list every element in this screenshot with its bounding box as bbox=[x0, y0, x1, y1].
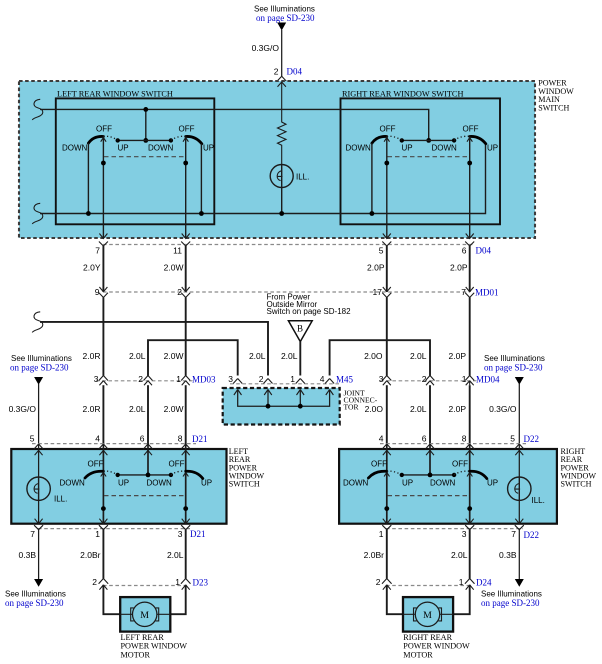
svg-text:MOTOR: MOTOR bbox=[403, 650, 433, 659]
entry chevrons into left switch box bbox=[34, 444, 44, 455]
svg-text:MD03: MD03 bbox=[192, 375, 216, 385]
lamp ILL. (right switch) bbox=[508, 444, 545, 524]
svg-text:7: 7 bbox=[461, 287, 466, 297]
svg-text:2.0P: 2.0P bbox=[367, 263, 385, 273]
pin 2 connector D04 top bbox=[274, 67, 303, 82]
svg-text:2.0P: 2.0P bbox=[449, 404, 467, 414]
svg-text:0.3G/O: 0.3G/O bbox=[252, 43, 280, 53]
svg-text:2.0L: 2.0L bbox=[129, 404, 146, 414]
switch sw7 (right rear switch, left half) bbox=[343, 444, 413, 524]
svg-text:2.0R: 2.0R bbox=[83, 351, 101, 361]
wire sw4 OFF pole down to pin 6 bbox=[469, 137, 471, 239]
pin 11 exit symbol bbox=[181, 234, 190, 247]
svg-text:D23: D23 bbox=[193, 578, 209, 588]
pin 7 exit / D22 bbox=[515, 519, 524, 530]
label left rear power window motor bbox=[121, 633, 188, 659]
wire 2.0P pin6 to pin7 MD01 bbox=[469, 246, 471, 292]
svg-text:2: 2 bbox=[92, 577, 97, 587]
wire lamp to bottom rail bbox=[281, 188, 283, 214]
connector row D22 (top of right switch) bbox=[379, 434, 539, 445]
wire 2.0Br to D24 pin 2 bbox=[386, 530, 388, 579]
svg-text:OFF: OFF bbox=[179, 125, 195, 134]
svg-text:DOWN: DOWN bbox=[147, 479, 173, 488]
wire 2.0W pin11 to pin2 bbox=[185, 246, 187, 292]
svg-text:D22: D22 bbox=[524, 530, 540, 540]
svg-text:2.0P: 2.0P bbox=[450, 263, 468, 273]
svg-text:LEFT REAR WINDOW SWITCH: LEFT REAR WINDOW SWITCH bbox=[57, 90, 173, 99]
resistor (illumination) bbox=[278, 82, 287, 165]
svg-text:OFF: OFF bbox=[380, 125, 396, 134]
wire 2.0Y pin7 to pin9 bbox=[102, 246, 104, 292]
connector row M45 (joint connector pins) bbox=[228, 374, 353, 385]
svg-text:2.0L: 2.0L bbox=[451, 550, 468, 560]
mechanical link sw1-sw2 bbox=[104, 156, 185, 158]
svg-text:MOTOR: MOTOR bbox=[121, 650, 151, 659]
svg-text:3: 3 bbox=[228, 374, 233, 384]
left rear power window switch box bbox=[11, 449, 226, 524]
MD04 pin 1 bbox=[465, 376, 474, 386]
mechanical link sw5-sw6 bbox=[104, 495, 186, 497]
svg-text:ILL.: ILL. bbox=[296, 173, 309, 182]
svg-text:UP: UP bbox=[487, 479, 498, 488]
joint connector internal bus bbox=[238, 390, 330, 406]
svg-text:17: 17 bbox=[373, 287, 383, 297]
tap wire pin 6 to contact wire bbox=[147, 444, 149, 475]
svg-text:UP: UP bbox=[402, 144, 413, 153]
svg-text:4: 4 bbox=[320, 374, 325, 384]
svg-text:on page SD-230: on page SD-230 bbox=[481, 598, 540, 608]
svg-text:0.3G/O: 0.3G/O bbox=[9, 404, 37, 414]
wire 2.0R to MD03 pin3 bbox=[102, 298, 104, 376]
svg-text:3: 3 bbox=[94, 374, 99, 384]
svg-text:2.0Br: 2.0Br bbox=[80, 550, 100, 560]
svg-text:ILL.: ILL. bbox=[532, 496, 545, 505]
switch sw1 (main, left rear, left half) bbox=[62, 125, 129, 153]
switch sw5 (left rear switch, left half) bbox=[60, 444, 130, 524]
tap wire pin 6 to contact wire (right box) bbox=[429, 444, 431, 475]
svg-text:RIGHT REAR WINDOW SWITCH: RIGHT REAR WINDOW SWITCH bbox=[342, 90, 463, 99]
pin 9 inline connector bbox=[99, 287, 107, 292]
svg-text:Switch on page SD-182: Switch on page SD-182 bbox=[267, 307, 352, 316]
svg-text:2.0L: 2.0L bbox=[167, 550, 184, 560]
switch sw4 (main, right rear, right half) bbox=[432, 125, 499, 153]
svg-text:on page SD-230: on page SD-230 bbox=[5, 598, 64, 608]
svg-text:SWITCH: SWITCH bbox=[229, 480, 260, 489]
node B: from power outside mirror switch bbox=[267, 293, 352, 342]
svg-text:2.0W: 2.0W bbox=[164, 351, 184, 361]
pin 7 exit symbol bbox=[99, 234, 108, 247]
contact wire sw7 UP to sw8 DOWN bbox=[402, 474, 454, 476]
svg-text:DOWN: DOWN bbox=[346, 144, 372, 153]
pin 2 inline connector bbox=[182, 287, 190, 292]
svg-text:RIGHT REAR: RIGHT REAR bbox=[403, 633, 452, 642]
pin 7 exit bbox=[34, 519, 43, 530]
wire sw1 lever end down to bottom rail bbox=[87, 143, 89, 214]
pin 6 exit symbol / D04 bbox=[465, 234, 474, 247]
svg-text:D04: D04 bbox=[476, 246, 492, 256]
svg-text:M: M bbox=[140, 610, 149, 621]
entry chevrons into right switch box bbox=[382, 444, 392, 455]
svg-text:5: 5 bbox=[30, 434, 35, 444]
svg-text:7: 7 bbox=[30, 529, 35, 539]
svg-text:2: 2 bbox=[376, 577, 381, 587]
svg-text:2.0W: 2.0W bbox=[164, 404, 184, 414]
pin 17 inline connector bbox=[383, 287, 391, 292]
label POWER WINDOW MAIN SWITCH bbox=[538, 79, 574, 113]
svg-text:DOWN: DOWN bbox=[430, 479, 456, 488]
svg-text:2.0O: 2.0O bbox=[364, 351, 383, 361]
svg-text:0.3B: 0.3B bbox=[499, 550, 517, 560]
arrow from illumination feed bbox=[277, 23, 286, 31]
MD03 pin 1 bbox=[181, 376, 190, 386]
wire 0.3B to illumination (left) bbox=[5, 530, 66, 608]
wire sw3 OFF pole down to pin 5 bbox=[386, 137, 388, 239]
svg-text:2: 2 bbox=[177, 287, 182, 297]
svg-text:2.0Br: 2.0Br bbox=[364, 550, 384, 560]
svg-text:2: 2 bbox=[422, 374, 427, 384]
MD03 pin 3 bbox=[99, 376, 108, 386]
wire joint pin 3 to MD03 pin 2 bbox=[148, 340, 238, 375]
svg-text:0.3B: 0.3B bbox=[19, 550, 37, 560]
connector row MD04 bbox=[379, 374, 500, 385]
svg-text:1: 1 bbox=[459, 577, 464, 587]
svg-text:D04: D04 bbox=[287, 67, 303, 77]
wire sw2 lever end down to bottom rail bbox=[200, 144, 202, 214]
svg-text:TOR: TOR bbox=[344, 403, 360, 412]
svg-text:3: 3 bbox=[178, 529, 183, 539]
wire 2.0W to MD03 pin1 bbox=[185, 298, 187, 376]
MD04 pin 3 bbox=[382, 376, 391, 386]
wire 2.0Br to D23 pin 2 bbox=[102, 530, 104, 579]
switch sw2 (main, left rear, right half) bbox=[148, 125, 214, 153]
connector row MD01 bbox=[103, 291, 470, 293]
svg-text:UP: UP bbox=[402, 479, 413, 488]
connector row D23 bbox=[92, 577, 208, 590]
power window main switch box bbox=[19, 81, 535, 238]
svg-text:1: 1 bbox=[290, 374, 295, 384]
right rear power window motor bbox=[387, 585, 470, 632]
svg-text:M: M bbox=[423, 610, 432, 621]
pin 2 entry arrow inside main switch bbox=[278, 82, 286, 87]
svg-text:DOWN: DOWN bbox=[343, 479, 369, 488]
svg-text:4: 4 bbox=[379, 434, 384, 444]
wire 2.0P pin5 to pin17 bbox=[386, 246, 388, 292]
svg-text:2.0L: 2.0L bbox=[249, 351, 266, 361]
svg-text:DOWN: DOWN bbox=[60, 479, 86, 488]
wire 2.0O to MD04 pin3 bbox=[386, 298, 388, 376]
inner box: right rear window switch bbox=[341, 98, 501, 224]
svg-text:1: 1 bbox=[175, 577, 180, 587]
lamp ILL. (main switch) bbox=[270, 165, 309, 188]
svg-text:UP: UP bbox=[487, 144, 498, 153]
svg-text:OFF: OFF bbox=[452, 460, 468, 469]
wire 2.0L to D23 pin 1 bbox=[185, 530, 187, 579]
connector row D21 bottom bbox=[30, 519, 205, 539]
svg-text:1: 1 bbox=[95, 529, 100, 539]
connector row D22 bottom bbox=[379, 519, 539, 540]
connector row MD03 bbox=[94, 374, 216, 385]
wire sw2 OFF pole down to pin 11 bbox=[185, 137, 187, 239]
pin 5 exit symbol bbox=[382, 234, 391, 247]
switch sw3 (main, right rear, left half) bbox=[346, 125, 413, 153]
wire 2.0L to D24 pin 1 bbox=[469, 530, 471, 579]
svg-text:D21: D21 bbox=[190, 529, 206, 539]
wire: tap from top rail to sw1/sw2 contact wire bbox=[145, 109, 147, 140]
right illumination feed to D22 pin 5 bbox=[484, 354, 545, 444]
wire from continuation to joint connector pin 2 bbox=[40, 322, 268, 376]
svg-text:D22: D22 bbox=[524, 434, 540, 444]
wires into left rear power window switch bbox=[102, 385, 104, 444]
svg-text:2: 2 bbox=[138, 374, 143, 384]
svg-text:M45: M45 bbox=[336, 375, 354, 385]
svg-text:POWER WINDOW: POWER WINDOW bbox=[121, 642, 188, 651]
svg-text:3: 3 bbox=[462, 529, 467, 539]
wire 0.3G/O down to main switch bbox=[281, 30, 283, 76]
pin 3 exit / D21 bbox=[181, 519, 190, 530]
svg-text:OFF: OFF bbox=[463, 125, 479, 134]
M45 pin 4 bbox=[325, 379, 334, 384]
svg-text:ILL.: ILL. bbox=[54, 495, 67, 504]
pin 7 inline connector MD01 bbox=[466, 287, 474, 292]
svg-text:2.0W: 2.0W bbox=[164, 263, 184, 273]
svg-text:OFF: OFF bbox=[88, 460, 104, 469]
svg-text:6: 6 bbox=[422, 434, 427, 444]
svg-text:11: 11 bbox=[173, 246, 182, 256]
svg-text:3: 3 bbox=[379, 374, 384, 384]
wire 0.3B to illumination (right) bbox=[481, 530, 542, 608]
svg-text:LEFT REAR: LEFT REAR bbox=[121, 633, 165, 642]
svg-text:2: 2 bbox=[274, 67, 279, 77]
svg-text:OFF: OFF bbox=[169, 460, 185, 469]
svg-text:8: 8 bbox=[178, 434, 183, 444]
svg-text:5: 5 bbox=[510, 434, 515, 444]
wire B to joint pin 1 bbox=[299, 342, 301, 376]
inner box: left rear window switch bbox=[56, 98, 215, 224]
svg-text:on page SD-230: on page SD-230 bbox=[10, 363, 69, 373]
continuation squiggle (top rail) bbox=[32, 99, 42, 120]
wire sw3 lever end down to bottom rail bbox=[371, 143, 373, 214]
svg-text:8: 8 bbox=[462, 434, 467, 444]
svg-text:2.0R: 2.0R bbox=[83, 404, 101, 414]
svg-text:2.0L: 2.0L bbox=[410, 351, 427, 361]
svg-text:SWITCH: SWITCH bbox=[538, 103, 569, 112]
svg-text:MD04: MD04 bbox=[476, 375, 500, 385]
svg-text:2.0Y: 2.0Y bbox=[83, 263, 101, 273]
svg-text:UP: UP bbox=[203, 144, 214, 153]
wire: top supply rail in main switch bbox=[40, 109, 429, 140]
node: See Illuminations feed (top) bbox=[254, 5, 315, 24]
svg-text:on page SD-230: on page SD-230 bbox=[256, 13, 315, 23]
joint connector entry arrows bbox=[234, 390, 242, 396]
junction dots on tap bbox=[143, 107, 148, 112]
svg-text:0.3G/O: 0.3G/O bbox=[489, 404, 517, 414]
continuation squiggle (bottom rail) bbox=[32, 203, 42, 224]
MD04 pin 2 bbox=[426, 376, 435, 386]
wire joint pin 4 to MD04 pin 2 bbox=[330, 340, 430, 375]
svg-text:D21: D21 bbox=[192, 434, 208, 444]
pin 3 exit bbox=[465, 519, 474, 530]
wire 2.0P to MD04 pin1 bbox=[469, 298, 471, 376]
svg-text:4: 4 bbox=[95, 434, 100, 444]
connector row D24 bbox=[376, 577, 492, 590]
svg-text:DOWN: DOWN bbox=[432, 144, 458, 153]
svg-text:6: 6 bbox=[462, 246, 467, 256]
svg-text:7: 7 bbox=[95, 246, 100, 256]
svg-text:6: 6 bbox=[140, 434, 145, 444]
svg-text:DOWN: DOWN bbox=[148, 144, 174, 153]
svg-text:7: 7 bbox=[511, 529, 516, 539]
lamp ILL. (left switch) bbox=[27, 444, 67, 524]
continuation squiggle (2.0L feed) bbox=[32, 312, 42, 333]
pin 1 exit bbox=[99, 519, 108, 530]
switch sw6 (left rear switch, right half) bbox=[147, 444, 213, 524]
wire: bottom rail in main switch bbox=[40, 144, 486, 214]
contact wire sw5 UP to sw6 DOWN bbox=[118, 474, 171, 476]
svg-text:2.0L: 2.0L bbox=[281, 351, 298, 361]
svg-text:OFF: OFF bbox=[371, 460, 387, 469]
right rear power window switch box bbox=[339, 449, 557, 524]
label right rear power window motor bbox=[403, 633, 470, 659]
switch sw8 (right rear switch, right half) bbox=[430, 444, 498, 524]
junction dot tap right pair bbox=[426, 138, 431, 143]
mechanical link sw7-sw8 bbox=[388, 495, 470, 497]
svg-text:2.0L: 2.0L bbox=[129, 351, 146, 361]
connector D04 bottom (main switch exits) bbox=[103, 244, 474, 246]
svg-text:1: 1 bbox=[379, 529, 384, 539]
svg-text:OFF: OFF bbox=[96, 125, 112, 134]
svg-text:1: 1 bbox=[176, 374, 181, 384]
MD03 pin 2 bbox=[144, 376, 153, 386]
wire sw1 OFF pole down to pin 7 bbox=[102, 137, 104, 239]
M45 pin 3 bbox=[233, 379, 242, 384]
mechanical link sw3-sw4 bbox=[388, 156, 470, 158]
svg-text:UP: UP bbox=[201, 479, 212, 488]
M45 pin 1 bbox=[296, 379, 305, 384]
joint connector box M45 bbox=[223, 388, 340, 425]
svg-text:2.0O: 2.0O bbox=[365, 404, 384, 414]
svg-text:9: 9 bbox=[95, 287, 100, 297]
svg-text:UP: UP bbox=[118, 144, 129, 153]
svg-text:2: 2 bbox=[259, 374, 264, 384]
svg-text:on page SD-230: on page SD-230 bbox=[484, 363, 543, 373]
pin 1 exit bbox=[382, 519, 391, 530]
left illumination feed to D21 pin 5 bbox=[9, 354, 72, 444]
svg-text:UP: UP bbox=[118, 479, 129, 488]
svg-text:2.0P: 2.0P bbox=[449, 351, 467, 361]
left rear power window motor bbox=[103, 585, 185, 632]
contact wire between sw3 UP and sw4 DOWN bbox=[402, 139, 454, 141]
svg-text:5: 5 bbox=[379, 246, 384, 256]
svg-text:SWITCH: SWITCH bbox=[561, 480, 592, 489]
M45 pin 2 bbox=[264, 379, 273, 384]
contact wire between sw1 UP and sw2 DOWN bbox=[118, 139, 171, 141]
svg-text:B: B bbox=[297, 324, 303, 334]
svg-text:1: 1 bbox=[462, 374, 467, 384]
svg-text:DOWN: DOWN bbox=[62, 144, 88, 153]
svg-text:2.0L: 2.0L bbox=[410, 404, 427, 414]
svg-text:MD01: MD01 bbox=[475, 288, 499, 298]
svg-text:POWER WINDOW: POWER WINDOW bbox=[403, 642, 470, 651]
connector row D21 (top of left switch) bbox=[32, 434, 208, 445]
wires into right rear power window switch bbox=[386, 385, 388, 444]
svg-text:D24: D24 bbox=[476, 578, 492, 588]
